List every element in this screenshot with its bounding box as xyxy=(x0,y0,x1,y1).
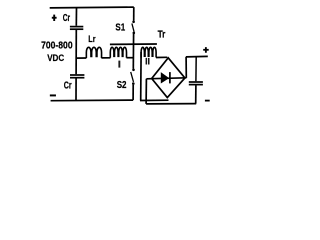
diode axis wire xyxy=(146,78,186,79)
wire bottom rail xyxy=(51,99,134,102)
wire bridge right corner up xyxy=(185,57,187,78)
capacitor Cr bottom xyxy=(70,74,84,76)
wire left rail upper xyxy=(75,8,77,26)
wire left rail lower xyxy=(75,79,77,101)
diode D1 triangle xyxy=(161,73,168,83)
capacitor C out xyxy=(189,81,203,83)
svg-text:VDC: VDC xyxy=(47,52,64,63)
wire cap midpoint to Lr xyxy=(76,57,86,59)
wire primary to switch midpoint xyxy=(126,57,133,59)
label + input xyxy=(52,15,57,21)
wire output minus rail xyxy=(146,103,196,105)
wire secondary left lead down xyxy=(140,52,142,101)
wire bridge minus lead down xyxy=(145,79,147,104)
svg-text:Cr: Cr xyxy=(63,13,70,24)
wire left rail middle xyxy=(75,30,77,74)
label + output xyxy=(203,47,209,53)
svg-text:Tr: Tr xyxy=(158,30,166,41)
svg-text:S1: S1 xyxy=(115,23,125,34)
label minus input xyxy=(50,94,56,96)
switch S2 blade xyxy=(131,72,134,82)
svg-text:Cr: Cr xyxy=(64,81,72,92)
wire switch midpoint xyxy=(132,34,134,69)
label minus output xyxy=(205,100,210,102)
transformer core line xyxy=(110,43,157,45)
switch S1 blade xyxy=(132,23,134,32)
wire S2 bottom lead xyxy=(132,85,134,100)
switch S2 contact dots xyxy=(132,69,135,72)
wire output cap bottom leg xyxy=(195,85,197,103)
wire output top bar xyxy=(186,55,208,58)
wire S1 top lead xyxy=(133,7,135,21)
label II secondary xyxy=(146,58,148,65)
wire top rail xyxy=(50,6,134,9)
diode bridge diamond xyxy=(152,58,185,98)
label I primary xyxy=(118,61,120,68)
inductor Lr xyxy=(86,47,101,58)
wire output AC return rail xyxy=(140,99,169,101)
transformer primary winding I xyxy=(110,47,126,58)
svg-text:Lr: Lr xyxy=(88,34,96,44)
capacitor Cr top xyxy=(70,26,83,28)
wire Lr to primary xyxy=(101,57,110,59)
wire secondary to bridge top corner xyxy=(156,56,167,58)
svg-text:S2: S2 xyxy=(117,80,127,91)
transformer secondary winding II xyxy=(141,47,156,57)
switch S1 contact dots xyxy=(132,21,135,24)
diode D1 cathode bar xyxy=(169,72,171,83)
wire output cap top leg xyxy=(195,57,197,81)
svg-text:700-800: 700-800 xyxy=(41,41,73,52)
